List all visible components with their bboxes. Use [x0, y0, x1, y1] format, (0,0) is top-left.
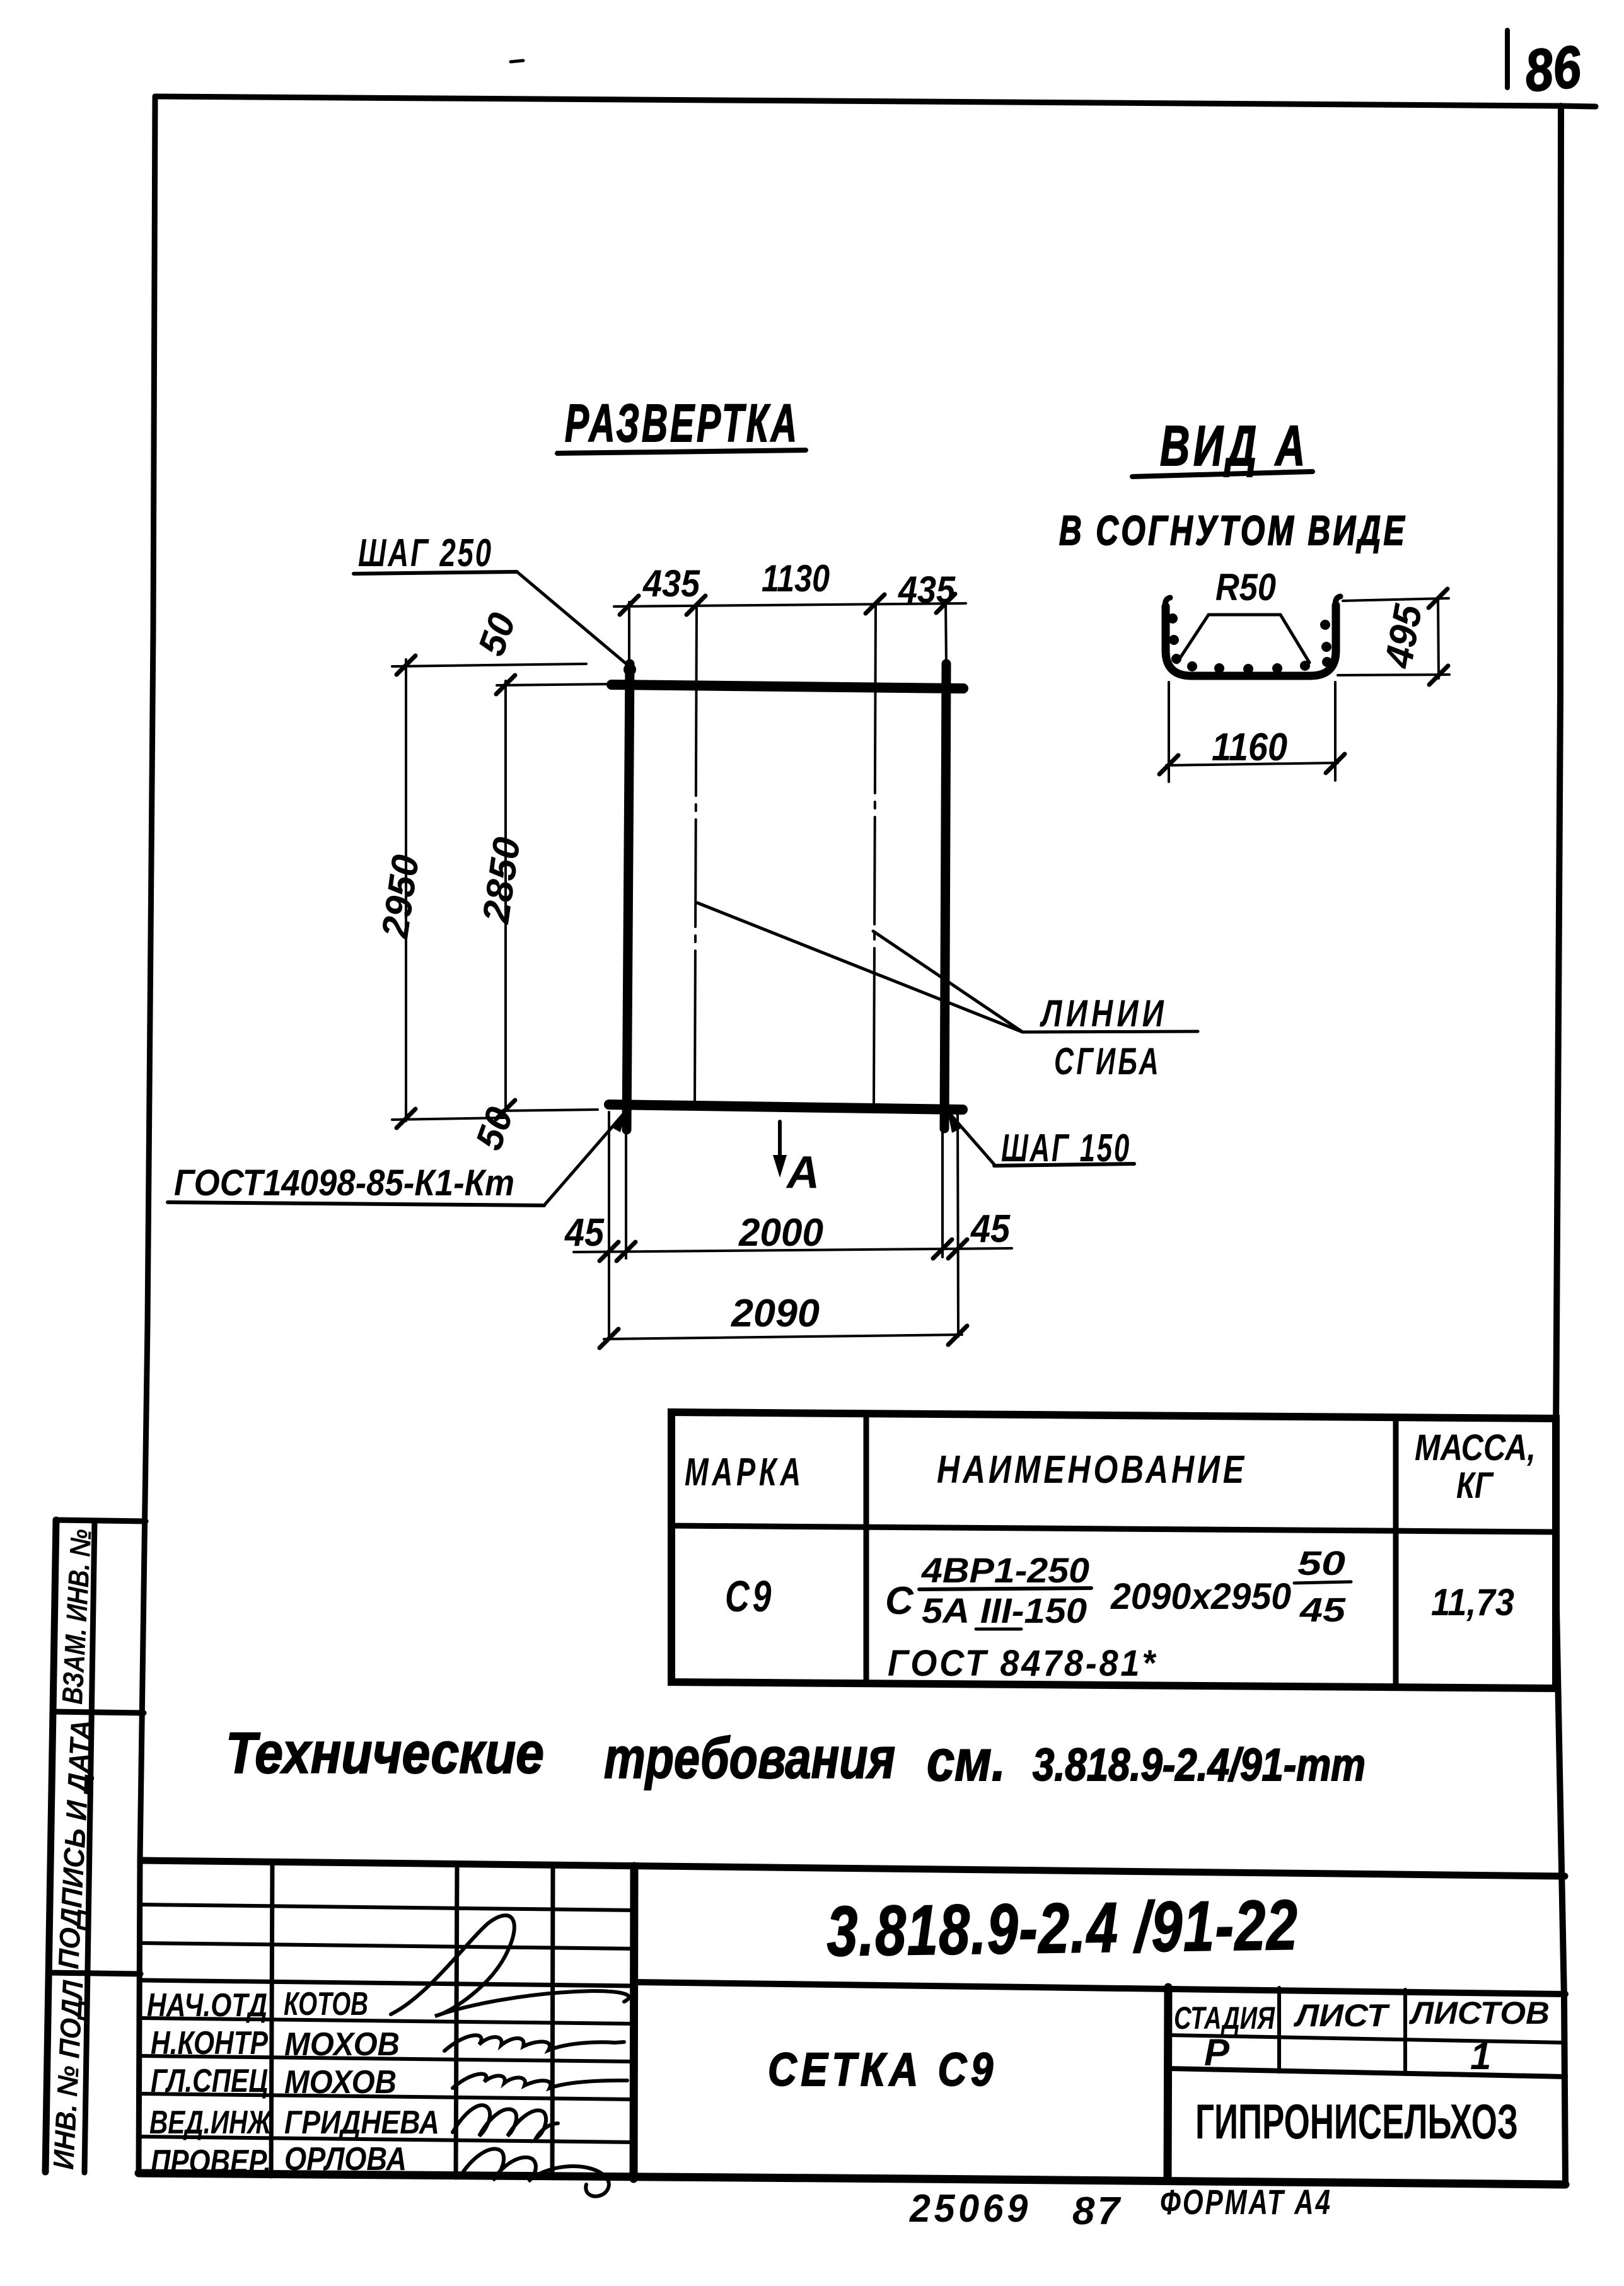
drawing frame top border [155, 96, 1596, 107]
extension: left bar bottom down [625, 1131, 627, 1258]
svg-text:45: 45 [1299, 1591, 1346, 1629]
svg-text:РАЗВЕРТКА: РАЗВЕРТКА [565, 393, 799, 453]
leader end dot [623, 663, 636, 676]
svg-text:НАЧ.ОТД: НАЧ.ОТД [147, 1987, 267, 2024]
tick 2090 left [600, 1329, 618, 1348]
svg-text:50: 50 [1297, 1545, 1345, 1582]
leader arrowhead bottom-right corner [948, 1111, 961, 1133]
table column divider 2 [1393, 1417, 1399, 1687]
svg-text:МОХОВ: МОХОВ [284, 2026, 400, 2063]
signature Гриднева [453, 2105, 558, 2138]
svg-text:см.: см. [927, 1729, 1006, 1793]
drawing frame bottom border (title block bottom) [139, 2173, 1565, 2184]
svg-text:R50: R50 [1215, 566, 1276, 608]
tick 2090 right [948, 1326, 967, 1345]
document number cell bottom line [634, 1982, 1565, 1994]
svg-text:435: 435 [642, 562, 700, 605]
title block top line [141, 1860, 1565, 1876]
mesh top transverse bar [612, 685, 963, 688]
rebar dot bottom 3 [1243, 664, 1253, 674]
svg-text:МОХОВ: МОХОВ [284, 2064, 397, 2101]
top extension line to 2850 [497, 684, 613, 685]
sidebar divider 2 (Подпись/Инв) [49, 1973, 141, 1974]
table column divider 1 [864, 1413, 869, 1683]
fraction bar [919, 1588, 1091, 1589]
bent sheet trapezoid line [1177, 615, 1309, 663]
bottom extension line to 2850 [497, 1110, 598, 1111]
name row line НАЧ.ОТД bottom [141, 2018, 634, 2024]
mesh bottom transverse bar [609, 1105, 963, 1110]
rebar dot bottom 1 [1187, 661, 1197, 671]
svg-text:КОТОВ: КОТОВ [284, 1986, 368, 2022]
svg-text:45: 45 [970, 1207, 1011, 1251]
underline of Шаг 150 [994, 1164, 1134, 1166]
name row line Н.КОНТР bottom [141, 2056, 634, 2062]
extension line above left bar [628, 602, 630, 666]
стадия row bottom line [1168, 2068, 1565, 2077]
svg-text:1160: 1160 [1212, 726, 1287, 769]
signature Орлова [460, 2149, 609, 2196]
svg-text:3.818.9-2.4 /91-22: 3.818.9-2.4 /91-22 [826, 1886, 1299, 1971]
leader to bend line 1 [697, 903, 1023, 1032]
tick 495 top [1429, 589, 1447, 608]
tick 1160 left [1159, 755, 1178, 774]
svg-text:ШАГ 250: ШАГ 250 [358, 531, 493, 575]
стадия/лист header bottom line [1168, 2035, 1565, 2043]
svg-text:ВИД А: ВИД А [1160, 415, 1309, 478]
rebar dot left 3 [1171, 654, 1181, 664]
svg-text:435: 435 [898, 569, 956, 611]
signature area row line 3 / doc cell bottom left part [141, 1980, 634, 1986]
svg-text:1130: 1130 [762, 557, 830, 600]
signature Мохов 1 [444, 2035, 624, 2051]
underline of Вид А [1132, 472, 1313, 477]
leader arrowhead at bottom-left corner [612, 1110, 627, 1132]
underline of ГОСТ label [168, 1202, 544, 1205]
table header divider [671, 1526, 1556, 1532]
rebar dot right 3 [1322, 657, 1332, 667]
left dim line 2950 [405, 659, 407, 1121]
tick 2000 right outer [948, 1239, 967, 1258]
underline of Развертка [557, 450, 806, 453]
signature Котов [391, 1915, 629, 2016]
svg-text:ВЕД.ИНЖ: ВЕД.ИНЖ [149, 2104, 272, 2141]
svg-text:ЛИНИИ: ЛИНИИ [1040, 992, 1168, 1035]
signature table column divider 1 [271, 1862, 272, 2176]
svg-text:45: 45 [564, 1211, 605, 1255]
section arrow A shaft [778, 1122, 782, 1168]
svg-text:86: 86 [1522, 33, 1584, 104]
sidebar column divider [84, 1521, 95, 2173]
extension top for 495 [1343, 598, 1449, 601]
tick at x=1500 [936, 594, 955, 613]
left dim line 2850 [504, 681, 507, 1111]
svg-text:ФОРМАТ А4: ФОРМАТ А4 [1160, 2182, 1332, 2222]
svg-text:ЛИСТ: ЛИСТ [1294, 1998, 1391, 2033]
leader horizontal under линии [1023, 1031, 1198, 1032]
top extension line to 2950 [392, 664, 586, 666]
svg-text:11,73: 11,73 [1431, 1581, 1514, 1623]
signature Мохов 2 [453, 2074, 627, 2088]
svg-text:ОРЛОВА: ОРЛОВА [284, 2141, 407, 2178]
rebar dot right 2 [1321, 642, 1331, 652]
svg-text:ГИПРОНИСЕЛЬХОЗ: ГИПРОНИСЕЛЬХОЗ [1195, 2094, 1518, 2149]
svg-text:ГЛ.СПЕЦ: ГЛ.СПЕЦ [151, 2063, 268, 2099]
signature table column divider 3 [552, 1865, 553, 2178]
center vertical divider (Сетка cell right) [1168, 1987, 1168, 2180]
bend line 1 (dash-dot) [695, 606, 697, 1107]
name row line ВЕД.ИНЖ bottom [140, 2137, 634, 2142]
top dimension line (435/1130/435) [614, 603, 966, 606]
svg-text:В СОГНУТОМ ВИДЕ: В СОГНУТОМ ВИДЕ [1059, 507, 1407, 554]
table outer border [671, 1412, 1556, 1688]
svg-text:СГИБА: СГИБА [1054, 1040, 1161, 1082]
svg-text:2090: 2090 [731, 1292, 820, 1335]
svg-text:4ВР1-250: 4ВР1-250 [921, 1550, 1089, 1590]
sidebar top edge [56, 1520, 146, 1521]
svg-text:МАССА,: МАССА, [1415, 1427, 1536, 1468]
stray scan dash top center [511, 61, 523, 62]
underline of Шаг 250 [354, 572, 517, 574]
svg-text:МАРКА: МАРКА [685, 1451, 804, 1494]
rebar dot bottom 2 [1214, 663, 1224, 673]
U-channel bent mesh outline [1166, 605, 1336, 676]
svg-text:С9: С9 [725, 1572, 774, 1621]
signature area row line 1 [142, 1905, 634, 1910]
signature table right edge thick [634, 1866, 634, 2179]
tick 495 bottom [1429, 666, 1448, 685]
page number tick mark [1505, 30, 1510, 88]
svg-text:СТАДИЯ: СТАДИЯ [1174, 2000, 1275, 2036]
svg-text:СЕТКА С9: СЕТКА С9 [768, 2043, 997, 2096]
sidebar left edge [45, 1520, 56, 2172]
svg-text:НАИМЕНОВАНИЕ: НАИМЕНОВАНИЕ [937, 1448, 1247, 1492]
dim line 2090 [604, 1335, 962, 1339]
tick 2850 top [496, 675, 515, 694]
extension: bottom bar right end down [958, 1113, 958, 1337]
signature table column divider 2 [456, 1864, 457, 2178]
section arrow A head [773, 1155, 787, 1178]
tick 2000 left outer [600, 1242, 618, 1261]
svg-text:С: С [885, 1579, 914, 1623]
sidebar divider 1 (Взам/Подпись) [53, 1712, 144, 1713]
svg-text:требования: требования [604, 1726, 895, 1790]
leader from ГОСТ label to bottom-left mesh corner [544, 1115, 623, 1205]
tick at x=1388 [866, 595, 884, 613]
extension: right bar bottom down [941, 1130, 944, 1257]
svg-text:ГОСТ14098-85-К1-Кт: ГОСТ14098-85-К1-Кт [174, 1163, 514, 1204]
svg-text:2090х2950: 2090х2950 [1110, 1576, 1291, 1617]
rebar dot bottom 5 [1300, 661, 1310, 671]
rebar dot bottom 4 [1272, 663, 1282, 673]
svg-text:ГРИДНЕВА: ГРИДНЕВА [284, 2104, 439, 2141]
svg-text:3.818.9-2.4/91-тт: 3.818.9-2.4/91-тт [1033, 1740, 1366, 1790]
name row line ГЛ.СПЕЦ bottom [141, 2094, 634, 2099]
leader to bend line 2 [873, 931, 1023, 1032]
rebar dot left 1 [1168, 613, 1178, 624]
right wall top hook [1335, 596, 1340, 608]
tick 2850 bottom [496, 1100, 515, 1119]
extension bottom for 495 [1338, 675, 1449, 675]
extension line above right bar [946, 600, 946, 666]
leader from Шаг 150 to bottom-right mesh corner [951, 1115, 994, 1164]
svg-text:Н.КОНТР: Н.КОНТР [151, 2025, 268, 2062]
svg-text:ЛИСТОВ: ЛИСТОВ [1409, 1995, 1550, 2031]
divider стадия/лист [1277, 1988, 1281, 2072]
dim line 495 [1438, 598, 1439, 678]
svg-text:Р: Р [1204, 2031, 1230, 2074]
leader from Шаг 250 to top-left mesh corner [517, 572, 629, 666]
svg-text:А: А [786, 1147, 820, 1198]
svg-text:2000: 2000 [738, 1211, 823, 1255]
rebar dot right 1 [1320, 620, 1330, 630]
mesh left longitudinal bar [627, 664, 630, 1130]
rebar dot left 2 [1169, 635, 1179, 645]
extension: bottom bar left end down [608, 1112, 610, 1338]
tick 2950 bottom [397, 1109, 415, 1128]
svg-text:КГ: КГ [1456, 1465, 1494, 1506]
signature area row line 2 [142, 1943, 634, 1949]
bottom dim line 2000 with 45 margins [574, 1248, 1012, 1252]
divider лист/листов [1403, 1990, 1407, 2074]
tick 2000 right inner [933, 1239, 952, 1258]
svg-text:1: 1 [1470, 2035, 1491, 2077]
svg-text:87: 87 [1072, 2190, 1122, 2233]
mesh right longitudinal bar [944, 664, 946, 1128]
tick at x=1104 [687, 596, 705, 615]
bend line 2 (dash-dot) [874, 604, 876, 1107]
left wall top hook [1165, 598, 1170, 609]
extension left for 1160 [1168, 682, 1170, 782]
tick 2950 top [397, 656, 415, 675]
svg-text:Технические: Технические [226, 1721, 544, 1785]
svg-text:5А III-150: 5А III-150 [922, 1591, 1087, 1630]
bottom extension line to 2950 [392, 1118, 504, 1120]
drawing frame right border [1555, 106, 1565, 2183]
tick 1160 right [1326, 754, 1345, 773]
underline of III [976, 1628, 1021, 1631]
svg-text:25069: 25069 [909, 2187, 1031, 2231]
small fraction bar [1294, 1582, 1351, 1583]
svg-text:ПРОВЕР.: ПРОВЕР. [151, 2144, 271, 2180]
tick at x=998 [620, 596, 639, 615]
svg-text:ГОСТ 8478-81*: ГОСТ 8478-81* [888, 1643, 1157, 1684]
drawing frame left border [139, 96, 155, 2173]
dim line 1160 [1166, 763, 1338, 765]
tick 2000 left inner [617, 1242, 635, 1261]
extension right for 1160 [1334, 682, 1337, 780]
